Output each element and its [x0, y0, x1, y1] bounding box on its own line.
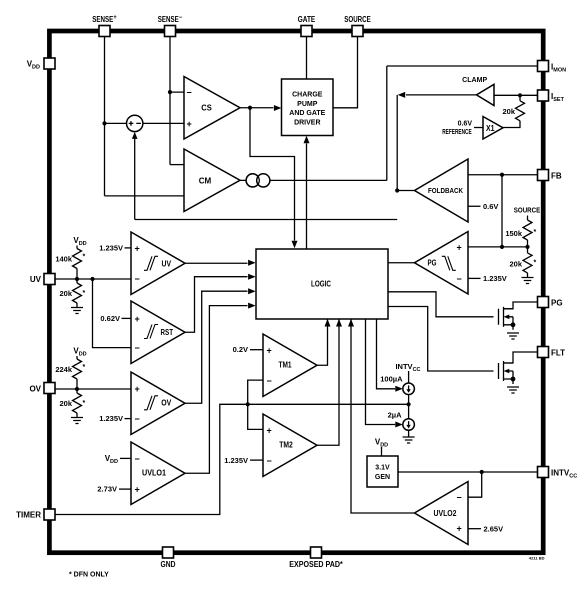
svg-text:UVLO2: UVLO2: [434, 509, 457, 518]
svg-text:PG: PG: [428, 259, 437, 268]
label VDD 3.1V GEN: [375, 438, 388, 457]
resistor 20k ISET: [502, 95, 524, 127]
wire FB pin to foldback input: [468, 174, 538, 176]
svg-text:FLT: FLT: [551, 349, 565, 358]
label 1.235V TM2: [224, 456, 263, 465]
svg-text:2µA: 2µA: [388, 410, 402, 419]
wire CS output: [240, 105, 281, 111]
node SENSE- junction at CS: [168, 90, 172, 94]
svg-text:+: +: [267, 345, 272, 355]
ground divider: [522, 278, 534, 284]
ground FLT MOSFET: [507, 387, 519, 393]
wire FB node to divider node: [501, 175, 503, 247]
wire SOURCE pin to charge pump: [333, 37, 358, 108]
label 0.62V RST: [100, 314, 131, 323]
svg-text:2.65V: 2.65V: [484, 524, 504, 533]
wire foldback feedback to summing: [132, 132, 397, 220]
current mirror symbol: [246, 174, 270, 187]
svg-text:UVLO1: UVLO1: [142, 469, 166, 478]
comparator UVLO2: [415, 482, 469, 545]
pin GND: [161, 547, 176, 569]
svg-text:UV: UV: [30, 275, 42, 284]
node foldback output: [395, 188, 399, 192]
svg-text:RST: RST: [161, 328, 174, 337]
divider VDD 224k: [55, 347, 86, 390]
wire OV pin line: [55, 388, 131, 390]
svg-text:PG: PG: [551, 299, 563, 308]
wire TM2 + input: [248, 404, 263, 429]
resistor 20k divider: [509, 247, 536, 278]
wire TM1 - input: [248, 380, 263, 404]
pin SENSE+: [92, 15, 117, 37]
svg-text:+: +: [457, 243, 462, 253]
wire CLAMP output to foldback node: [397, 92, 476, 191]
current source 2uA: [388, 410, 415, 430]
buffer X1: [483, 117, 503, 140]
node current source junction: [407, 402, 411, 406]
box 3.1V GEN: [367, 456, 398, 487]
pin PG: [538, 297, 563, 308]
svg-text:+: +: [135, 384, 140, 394]
label 1.235V PG: [468, 274, 507, 283]
svg-text:+: +: [135, 243, 140, 253]
wire RST output to LOGIC: [185, 274, 256, 333]
pin SENSE-: [158, 15, 183, 37]
svg-text:CM: CM: [199, 176, 212, 185]
doc number: [529, 556, 545, 561]
comparator TM2: [263, 414, 317, 477]
wire LOGIC to charge pump: [304, 136, 310, 249]
svg-text:−: −: [135, 343, 140, 353]
svg-text:1.235V: 1.235V: [99, 243, 123, 252]
ground OV divider: [71, 418, 83, 424]
pin FLT: [538, 347, 566, 358]
node ISET divider: [518, 93, 522, 97]
wire 3.1V GEN to INTVCC: [398, 471, 538, 473]
wire UV pin line: [55, 278, 131, 280]
svg-text:+: +: [457, 524, 462, 534]
svg-text:4211 BD: 4211 BD: [529, 556, 545, 561]
resistor 20k UV: [59, 279, 85, 308]
svg-text:TM2: TM2: [279, 441, 293, 450]
label 0.6V REFERENCE: [442, 121, 483, 136]
box charge pump and gate driver: [282, 79, 334, 136]
svg-text:*: *: [83, 290, 86, 297]
svg-text:0.2V: 0.2V: [233, 345, 248, 354]
node SENSE+ junction: [102, 121, 106, 125]
svg-text:*: *: [83, 364, 86, 371]
svg-text:1.235V: 1.235V: [483, 274, 507, 283]
wire SENSE- to CM top input: [170, 164, 184, 166]
wire LOGIC to 100uA: [377, 319, 403, 392]
wire UV output to LOGIC: [185, 260, 256, 266]
resistor 20k OV: [59, 389, 85, 418]
pin INTVCC: [538, 467, 578, 480]
label INTVCC current source: [395, 362, 420, 383]
label 2.73V UVLO1: [97, 485, 131, 494]
wire SENSE+ to CM bottom input: [105, 195, 185, 197]
svg-text:+: +: [135, 485, 140, 495]
pin UV: [30, 274, 55, 285]
svg-text:1.235V: 1.235V: [99, 414, 123, 423]
wire UVLO1 output to LOGIC: [185, 303, 256, 474]
svg-text:AND GATE: AND GATE: [289, 110, 325, 117]
wire PG output to LOGIC: [388, 262, 415, 264]
svg-text:−: −: [187, 87, 192, 97]
op-amp CS: [184, 77, 240, 140]
svg-text:TM1: TM1: [279, 361, 292, 370]
svg-text:CLAMP: CLAMP: [462, 77, 487, 84]
wire GATE pin to charge pump: [306, 37, 308, 79]
wire UVLO2 output to LOGIC: [348, 319, 415, 513]
pin VDD: [27, 58, 55, 70]
wire ISET to clamp input: [494, 94, 538, 96]
svg-text:−: −: [457, 493, 462, 503]
svg-text:150k: 150k: [505, 229, 523, 238]
pin OV: [29, 383, 55, 394]
svg-text:20k: 20k: [502, 107, 515, 116]
label SOURCE divider: [514, 206, 541, 221]
node UV divider: [75, 277, 95, 281]
svg-text:* DFN ONLY: * DFN ONLY: [69, 572, 109, 579]
wire TM1 output to LOGIC: [317, 319, 331, 365]
wire TM2 output to LOGIC: [317, 319, 342, 445]
pin EXPOSED PAD: [289, 547, 343, 569]
svg-text:+: +: [135, 314, 140, 324]
node OV divider: [75, 387, 79, 391]
svg-text:EXPOSED PAD*: EXPOSED PAD*: [289, 560, 343, 569]
ground UV divider: [71, 308, 83, 314]
node FB: [500, 173, 504, 177]
comparator TM1: [263, 334, 317, 397]
pin GATE: [298, 15, 316, 37]
node divider PG: [500, 245, 530, 249]
svg-text:X1: X1: [486, 124, 495, 133]
svg-text:224k: 224k: [55, 365, 73, 374]
wire CS output to LOGIC: [250, 108, 298, 249]
svg-text:PUMP: PUMP: [297, 101, 318, 108]
svg-text:LOGIC: LOGIC: [311, 280, 331, 289]
pin IMON: [538, 61, 567, 74]
pin ISET: [538, 90, 565, 103]
svg-text:FB: FB: [551, 172, 562, 181]
wire OV output to LOGIC: [185, 288, 256, 403]
comparator FOLDBACK: [415, 159, 469, 222]
svg-text:OV: OV: [161, 399, 172, 408]
transistor PG MOSFET: [499, 302, 538, 330]
wire divider to PG +: [468, 246, 528, 248]
svg-text:−: −: [135, 454, 140, 464]
divider VDD 140k: [55, 236, 86, 279]
svg-text:20k: 20k: [59, 289, 72, 298]
svg-text:UV: UV: [162, 260, 172, 269]
svg-text:0.62V: 0.62V: [100, 314, 120, 323]
svg-text:−: −: [267, 376, 272, 386]
svg-text:FOLDBACK: FOLDBACK: [428, 188, 463, 195]
amp CLAMP: [462, 77, 494, 106]
wire summing to CS + input: [143, 122, 184, 124]
svg-text:3.1V: 3.1V: [375, 465, 390, 472]
svg-text:TIMER: TIMER: [16, 511, 41, 520]
pin SOURCE: [344, 15, 371, 37]
label 2.65V UVLO2: [468, 524, 503, 533]
svg-text:2.73V: 2.73V: [97, 485, 117, 494]
svg-text:*: *: [534, 260, 537, 267]
svg-text:−: −: [267, 456, 272, 466]
transistor FLT MOSFET: [499, 352, 538, 384]
resistor 150k: [505, 220, 536, 247]
box LOGIC: [256, 249, 388, 319]
comparator PG: [415, 232, 469, 295]
ground 2uA: [403, 430, 415, 443]
wire LOGIC to 2uA: [366, 319, 403, 428]
svg-text:*: *: [83, 400, 86, 407]
wire LOGIC to FLT MOSFET gate: [388, 307, 494, 372]
current source 100uA: [380, 375, 414, 395]
svg-text:+: +: [267, 425, 272, 435]
node TIMER junction: [246, 402, 250, 406]
wire LOGIC to PG MOSFET gate: [388, 292, 494, 317]
chip outline border: [49, 31, 543, 553]
svg-text:0.6V: 0.6V: [483, 202, 498, 211]
svg-text:DRIVER: DRIVER: [294, 120, 320, 127]
wire CM output to IMON: [240, 66, 538, 180]
svg-text:140k: 140k: [55, 255, 73, 264]
label 0.2V TM1: [233, 345, 263, 354]
pin FB: [538, 170, 562, 181]
svg-text:SOURCE: SOURCE: [344, 15, 371, 24]
svg-text:CHARGE: CHARGE: [292, 92, 323, 99]
svg-text:*: *: [534, 229, 537, 236]
label 0.6V foldback: [468, 202, 498, 211]
node CS output: [248, 106, 252, 110]
svg-text:GEN: GEN: [375, 474, 390, 481]
label 1.235V OV: [99, 414, 131, 423]
svg-text:SOURCE: SOURCE: [514, 206, 541, 215]
svg-text:OV: OV: [29, 385, 41, 394]
comparator OV: [131, 372, 185, 435]
svg-text:20k: 20k: [509, 260, 522, 269]
comparator UVLO1: [131, 442, 185, 505]
wire INTVCC to UVLO2 -: [468, 472, 482, 497]
op-amp CM: [184, 149, 240, 212]
svg-text:CS: CS: [201, 104, 212, 113]
svg-text:100µA: 100µA: [380, 375, 403, 384]
comparator RST: [131, 301, 185, 364]
pin TIMER: [16, 509, 55, 520]
summing junction: [127, 115, 143, 131]
svg-text:20k: 20k: [59, 399, 72, 408]
wire SENSE+ riser: [105, 37, 127, 196]
wire RST - riser: [93, 279, 132, 348]
label 1.235V UV: [99, 243, 131, 252]
wire TIMER net: [55, 404, 409, 514]
svg-text:GATE: GATE: [298, 15, 316, 24]
svg-text:−: −: [135, 414, 140, 424]
svg-text:+: +: [187, 119, 192, 129]
svg-text:−: −: [457, 274, 462, 284]
comparator UV: [131, 232, 185, 295]
svg-text:REFERENCE: REFERENCE: [442, 129, 472, 136]
label VDD UVLO1: [105, 454, 131, 465]
svg-text:*: *: [83, 254, 86, 261]
svg-text:−: −: [135, 274, 140, 284]
svg-text:1.235V: 1.235V: [224, 456, 248, 465]
svg-text:0.6V: 0.6V: [458, 121, 473, 128]
wire 100uA to junction: [408, 395, 410, 419]
note DFN: [69, 572, 109, 579]
wire foldback output: [397, 190, 414, 192]
node INTVCC: [480, 470, 484, 474]
ground PG MOSFET: [507, 333, 519, 339]
svg-text:GND: GND: [161, 560, 176, 569]
wire SENSE- riser: [170, 37, 184, 165]
